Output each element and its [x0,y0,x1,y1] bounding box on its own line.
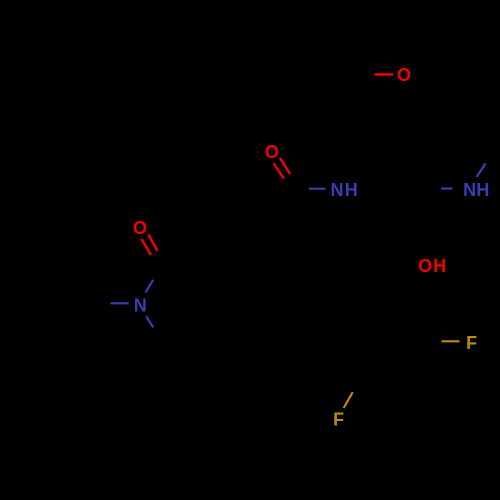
svg-text:F: F [466,333,477,353]
svg-text:H: H [476,180,489,200]
svg-text:O: O [133,218,147,238]
svg-text:O: O [418,256,432,276]
svg-text:H: H [345,180,358,200]
svg-text:N: N [463,180,476,200]
svg-text:H: H [433,256,446,276]
svg-text:O: O [397,65,411,85]
svg-text:O: O [265,142,279,162]
svg-text:F: F [333,409,344,429]
svg-text:N: N [331,180,344,200]
svg-text:N: N [134,295,147,315]
